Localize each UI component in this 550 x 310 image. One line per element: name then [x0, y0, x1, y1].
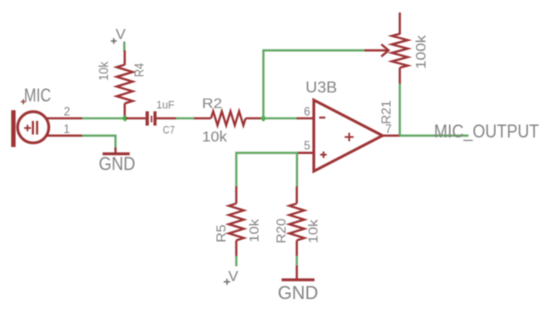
svg-text:5: 5	[304, 141, 310, 153]
svg-text:U3B: U3B	[306, 80, 338, 97]
svg-text:6: 6	[304, 106, 310, 118]
wire net MIC pin2 to junction	[82, 117, 125, 119]
wire net junction to op-amp pin 6	[263, 117, 297, 119]
potentiometer R21 zigzag	[392, 34, 408, 68]
resistor R4 top lead	[124, 51, 126, 66]
GND pin stub under MIC	[114, 148, 116, 153]
svg-text:10k: 10k	[202, 129, 228, 145]
pin 6 stub of op-amp	[297, 117, 314, 119]
capacitor C7 right plate	[153, 111, 156, 125]
resistor R20 zigzag	[289, 204, 304, 241]
resistor R2 right lead	[246, 117, 263, 119]
svg-text:R4: R4	[131, 63, 146, 77]
svg-text:MIC: MIC	[24, 86, 51, 106]
microphone MIC polarity plus mark	[21, 99, 26, 104]
svg-text:MIC_OUTPUT: MIC_OUTPUT	[434, 121, 539, 142]
svg-text:R2: R2	[202, 95, 222, 111]
svg-text:GND: GND	[278, 282, 319, 303]
svg-text:7: 7	[385, 124, 391, 136]
ground symbol bar under R20	[282, 278, 315, 281]
wire net R21 bottom to output	[399, 84, 401, 137]
svg-text:10k: 10k	[96, 61, 111, 81]
supply V+ plus mark bottom	[224, 279, 231, 285]
svg-text:R5: R5	[214, 225, 229, 243]
wire net V to R4	[123, 42, 125, 52]
junction node at R2 output	[260, 115, 267, 122]
wire net C7 to R2	[176, 117, 194, 119]
op-amp U3B minus input mark	[319, 117, 325, 119]
wire net feedback junction up and to wiper	[263, 50, 364, 118]
op-amp U3B triangle	[314, 100, 383, 171]
pin 2 stub of MIC	[46, 117, 83, 119]
microphone MIC body bar	[11, 110, 15, 147]
resistor R5 top lead	[235, 186, 237, 203]
svg-text:1: 1	[63, 124, 69, 136]
resistor R2 left lead	[194, 117, 211, 119]
resistor R4 bottom lead	[124, 103, 126, 118]
pin 1 stub of MIC	[47, 135, 83, 137]
resistor R4 zigzag	[117, 65, 133, 104]
svg-text:10k: 10k	[306, 219, 321, 244]
svg-text:100k: 100k	[412, 34, 428, 69]
ground symbol bar under MIC	[103, 152, 130, 155]
wire net MIC pin1 to GND	[82, 136, 116, 148]
capacitor C7 left plate	[146, 111, 149, 125]
wire net output to MIC_OUTPUT	[399, 135, 469, 137]
potentiometer R21 wiper arrowhead	[381, 44, 388, 56]
pin 5 stub of op-amp	[297, 152, 314, 154]
svg-text:R20: R20	[273, 218, 288, 243]
GND pin stub under R20	[296, 265, 298, 278]
svg-text:R21: R21	[379, 100, 394, 124]
resistor R5 zigzag	[229, 204, 244, 241]
potentiometer R21 bottom lead	[399, 68, 401, 84]
svg-text:1uF: 1uF	[156, 99, 174, 111]
supply V+ plus mark top	[111, 38, 117, 44]
resistor R2 zigzag	[211, 111, 246, 125]
wire net pin5 to R5 and R20	[236, 153, 297, 187]
svg-text:10k: 10k	[246, 218, 261, 242]
resistor R5 bottom lead	[235, 240, 237, 256]
capacitor C7 middle mark	[151, 116, 153, 123]
op-amp U3B center plus mark	[345, 133, 354, 142]
microphone MIC internal plate 2	[36, 121, 38, 135]
capacitor C7 right lead	[156, 117, 176, 119]
op-amp U3B plus input mark	[320, 152, 327, 159]
junction node at R4 bottom	[122, 115, 129, 122]
wire net R20 to GND	[296, 256, 298, 266]
pin 7 output stub of op-amp	[382, 135, 400, 137]
svg-text:2: 2	[64, 106, 70, 118]
capacitor C7 left lead	[126, 117, 146, 119]
resistor R20 top lead	[296, 186, 298, 203]
wire net R5 to V supply	[235, 256, 237, 266]
svg-text:V: V	[116, 26, 126, 43]
microphone MIC internal plate 1	[32, 121, 34, 135]
potentiometer R21 wiper line	[365, 49, 388, 51]
svg-text:V: V	[228, 268, 238, 285]
microphone MIC internal plus	[24, 125, 31, 132]
svg-text:C7: C7	[163, 125, 175, 137]
potentiometer R21 top stub	[399, 13, 401, 35]
microphone MIC circle	[18, 112, 49, 143]
svg-text:GND: GND	[99, 154, 136, 174]
resistor R20 bottom lead	[296, 240, 298, 256]
